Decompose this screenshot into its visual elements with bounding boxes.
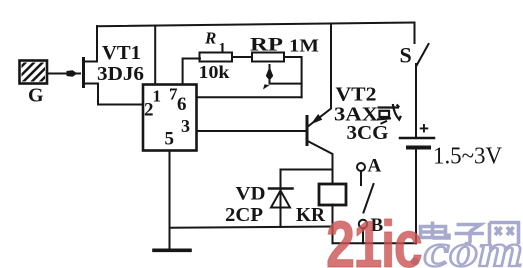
svg-text:1: 1 xyxy=(219,41,227,57)
svg-text:VD: VD xyxy=(236,184,266,205)
svg-text:6: 6 xyxy=(177,94,187,115)
svg-text:A: A xyxy=(368,156,382,177)
svg-text:3CG: 3CG xyxy=(347,122,389,144)
svg-text:2: 2 xyxy=(144,100,154,121)
svg-text:com: com xyxy=(424,226,523,268)
svg-text:5: 5 xyxy=(165,129,175,150)
svg-text:3: 3 xyxy=(181,116,190,136)
svg-text:S: S xyxy=(400,43,412,68)
svg-text:G: G xyxy=(28,85,44,107)
svg-text:+: + xyxy=(419,119,429,138)
svg-text:3DJ6: 3DJ6 xyxy=(97,63,144,85)
svg-text:R: R xyxy=(204,29,216,48)
svg-text:RP: RP xyxy=(250,35,284,56)
svg-text:10k: 10k xyxy=(199,62,230,82)
svg-text:VT2: VT2 xyxy=(336,84,377,106)
svg-text:KR: KR xyxy=(296,204,326,226)
svg-text:2CP: 2CP xyxy=(225,204,263,226)
svg-text:1M: 1M xyxy=(289,36,319,56)
svg-text:1: 1 xyxy=(153,87,162,106)
svg-text:1.5~3V: 1.5~3V xyxy=(433,144,503,170)
svg-text:VT1: VT1 xyxy=(102,42,141,64)
